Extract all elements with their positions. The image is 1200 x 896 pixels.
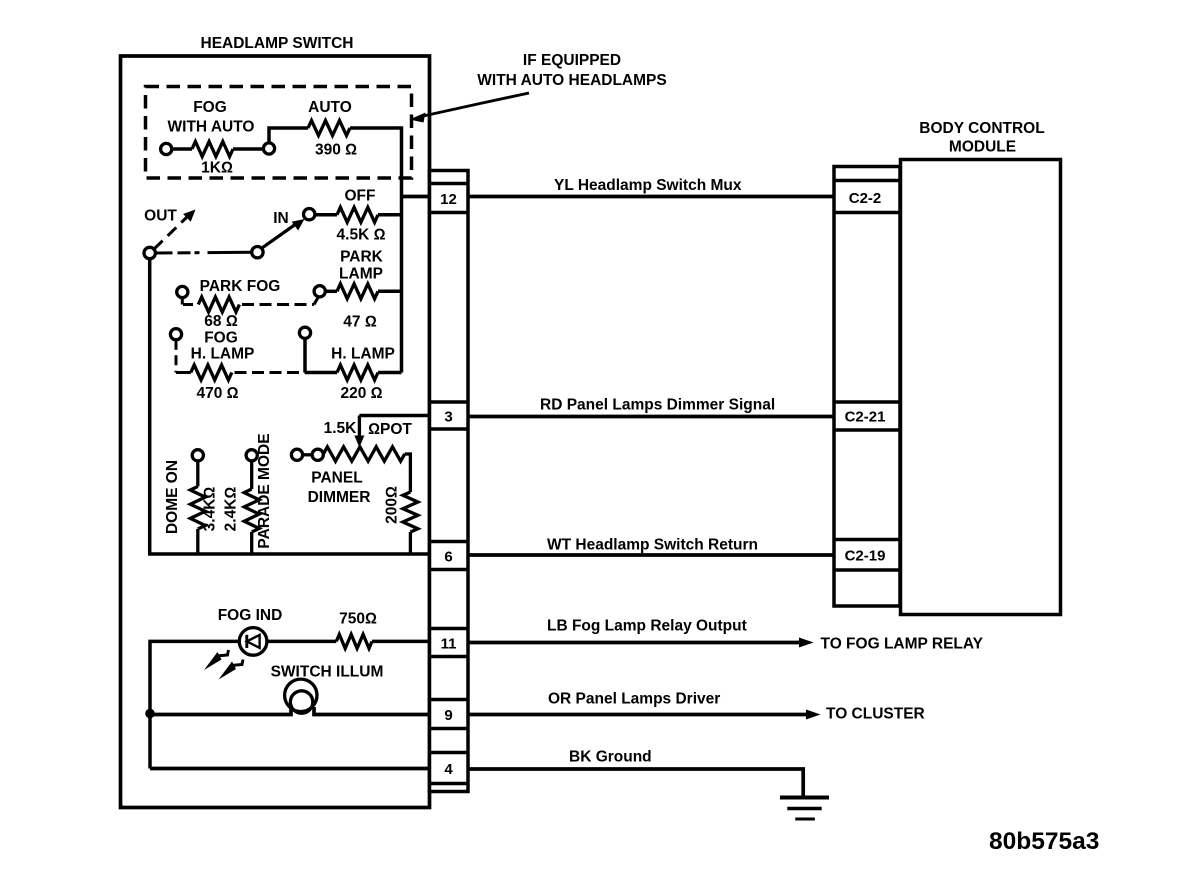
svg-text:OUT: OUT xyxy=(144,208,177,225)
svg-text:6: 6 xyxy=(444,548,452,565)
wire BK ground xyxy=(468,769,803,797)
wire pin 3 into switch xyxy=(359,414,429,418)
wire auto to bus xyxy=(350,126,402,130)
wire xyxy=(250,532,253,554)
wire ground row xyxy=(150,767,430,771)
svg-text:DIMMER: DIMMER xyxy=(308,489,371,506)
wire xyxy=(315,213,337,217)
svg-text:H. LAMP: H. LAMP xyxy=(331,346,395,363)
wire dashes park fog left xyxy=(181,298,184,305)
svg-text:MODULE: MODULE xyxy=(949,139,1016,156)
resistor 3.4K ohm (dome on) xyxy=(190,487,205,530)
svg-text:WITH AUTO: WITH AUTO xyxy=(168,119,255,136)
svg-text:3.4KΩ: 3.4KΩ xyxy=(202,487,219,532)
dimmer rail wire to pin 6 xyxy=(148,552,429,556)
wire LB fog lamp relay output xyxy=(468,641,801,645)
terminal circle PARK LAMP xyxy=(314,286,325,297)
body control module box xyxy=(901,160,1061,615)
terminal circle FOG WITH AUTO right xyxy=(263,143,274,154)
svg-text:H. LAMP: H. LAMP xyxy=(191,346,255,363)
svg-text:220 Ω: 220 Ω xyxy=(340,385,382,402)
wire dashed 470 to h.lamp junction xyxy=(235,371,306,374)
svg-text:47 Ω: 47 Ω xyxy=(343,314,377,331)
wire OR panel lamps driver xyxy=(468,713,808,717)
wire xyxy=(303,453,313,456)
wire xyxy=(267,640,336,644)
resistor 47 ohm (park lamp) xyxy=(337,284,378,299)
resistor 68 ohm (park fog) xyxy=(198,297,239,312)
svg-text:68 Ω: 68 Ω xyxy=(204,313,238,330)
switch arm IN (solid, with arrowhead) xyxy=(262,223,299,249)
wire xyxy=(172,147,192,151)
svg-text:WT Headlamp Switch Return: WT Headlamp Switch Return xyxy=(547,537,758,554)
svg-text:PANEL: PANEL xyxy=(311,470,362,487)
junction dot xyxy=(145,709,155,719)
svg-text:PARADE MODE: PARADE MODE xyxy=(256,433,273,548)
svg-text:AUTO: AUTO xyxy=(308,99,352,116)
terminal circle H.LAMP xyxy=(299,327,310,338)
switch pivot circle (IN side) xyxy=(252,247,263,258)
svg-text:IF EQUIPPED: IF EQUIPPED xyxy=(523,52,621,69)
lamp switch illumination xyxy=(285,679,317,711)
svg-text:C2-2: C2-2 xyxy=(849,190,882,207)
LED fog indicator xyxy=(239,628,267,656)
svg-text:ΩPOT: ΩPOT xyxy=(368,421,412,438)
wire up from junction to AUTO branch xyxy=(269,128,308,143)
wire xyxy=(305,371,337,375)
wire xyxy=(196,529,199,554)
terminal circle pot A xyxy=(291,449,302,460)
note pointer arrow xyxy=(421,93,529,117)
svg-text:TO FOG LAMP RELAY: TO FOG LAMP RELAY xyxy=(821,636,984,653)
svg-text:C2-19: C2-19 xyxy=(845,547,886,564)
svg-text:1.5K: 1.5K xyxy=(324,420,358,437)
svg-text:1KΩ: 1KΩ xyxy=(201,160,233,177)
terminal circle IN xyxy=(304,209,315,220)
svg-text:HEADLAMP SWITCH: HEADLAMP SWITCH xyxy=(201,35,354,52)
svg-text:BK Ground: BK Ground xyxy=(569,749,652,766)
wire pot to 200 ohm xyxy=(405,454,411,492)
wire xyxy=(314,707,430,715)
svg-text:C2-21: C2-21 xyxy=(845,408,886,425)
wire xyxy=(250,461,253,489)
wire xyxy=(233,147,263,151)
pot wiper arrow xyxy=(358,416,361,439)
svg-text:390 Ω: 390 Ω xyxy=(315,142,357,159)
wire dashed park fog to park lamp xyxy=(242,303,314,306)
svg-text:2.4KΩ: 2.4KΩ xyxy=(223,487,240,532)
svg-text:FOG: FOG xyxy=(193,99,227,116)
svg-text:IN: IN xyxy=(273,210,289,227)
wire xyxy=(150,641,239,768)
switch arm OUT (dashed, with arrowhead) xyxy=(154,216,188,249)
svg-text:80b575a3: 80b575a3 xyxy=(989,828,1099,855)
svg-text:3: 3 xyxy=(444,408,452,425)
wire xyxy=(378,371,402,375)
terminal circle FOG WITH AUTO left xyxy=(161,143,172,154)
svg-text:LAMP: LAMP xyxy=(339,266,383,283)
svg-text:4.5K Ω: 4.5K Ω xyxy=(337,227,386,244)
svg-text:PARK FOG: PARK FOG xyxy=(200,278,281,295)
svg-text:FOG IND: FOG IND xyxy=(218,607,283,624)
resistor 750 ohm xyxy=(336,634,372,648)
BCM connector strip xyxy=(834,167,900,607)
resistor 4.5K ohm (off) xyxy=(337,207,378,222)
wire xyxy=(409,532,412,554)
resistor 220 ohm (h.lamp) xyxy=(337,365,378,380)
terminal circle FOG H.LAMP xyxy=(170,329,181,340)
wire from pivot down to dimmer rail xyxy=(148,259,152,554)
wire YL headlamp switch mux xyxy=(468,195,834,199)
svg-text:LB Fog Lamp Relay Output: LB Fog Lamp Relay Output xyxy=(547,618,747,635)
wire bus to pin 12 xyxy=(402,195,430,199)
svg-text:BODY CONTROL: BODY CONTROL xyxy=(919,120,1044,137)
wire h.lamp drop xyxy=(303,338,307,372)
wire RD panel lamps dimmer signal xyxy=(468,415,834,419)
terminal circle PARK FOG xyxy=(177,286,188,297)
resistor 1K ohm (fog with auto) xyxy=(192,142,233,157)
resistor 200 ohm xyxy=(403,492,418,532)
svg-text:12: 12 xyxy=(440,191,457,208)
wire WT headlamp switch return xyxy=(468,553,834,557)
wire xyxy=(150,707,291,715)
dash-dot link wire between pivots xyxy=(156,251,252,255)
terminal circle pot B xyxy=(312,449,323,460)
svg-text:DOME ON: DOME ON xyxy=(164,460,181,534)
svg-text:11: 11 xyxy=(441,635,457,652)
svg-text:TO CLUSTER: TO CLUSTER xyxy=(826,706,925,723)
svg-text:WITH AUTO HEADLAMPS: WITH AUTO HEADLAMPS xyxy=(477,72,666,89)
svg-text:OFF: OFF xyxy=(345,188,376,205)
resistor 470 ohm (fog h.lamp) xyxy=(191,365,232,380)
wire xyxy=(378,290,402,294)
wire xyxy=(325,290,337,294)
bus wire (right vertical inside switch) xyxy=(400,126,404,372)
wire xyxy=(372,640,430,644)
terminal circle PARADE MODE xyxy=(246,450,257,461)
svg-text:RD Panel Lamps Dimmer Signal: RD Panel Lamps Dimmer Signal xyxy=(540,397,775,414)
terminal circle DOME ON xyxy=(192,450,203,461)
wire dashed fog h.lamp drop xyxy=(175,340,178,373)
wire xyxy=(196,461,199,487)
svg-text:PARK: PARK xyxy=(340,249,384,266)
resistor 390 ohm (auto) xyxy=(308,121,350,136)
svg-text:FOG: FOG xyxy=(204,330,238,347)
resistor 2.4K ohm (parade mode) xyxy=(244,489,259,532)
ground symbol xyxy=(780,796,829,800)
svg-text:200Ω: 200Ω xyxy=(384,486,401,524)
headlamp switch outline box xyxy=(121,56,430,808)
potentiometer 1.5K panel dimmer xyxy=(323,447,404,461)
switch pivot circle (common) xyxy=(144,247,155,258)
wire xyxy=(378,213,402,217)
dashed auto-headlamps option box xyxy=(146,87,412,179)
LED light arrows xyxy=(217,650,229,656)
svg-text:750Ω: 750Ω xyxy=(339,611,377,628)
svg-text:470 Ω: 470 Ω xyxy=(196,385,238,402)
svg-text:YL Headlamp Switch Mux: YL Headlamp Switch Mux xyxy=(554,177,742,194)
svg-text:OR Panel Lamps Driver: OR Panel Lamps Driver xyxy=(548,691,720,708)
svg-text:SWITCH ILLUM: SWITCH ILLUM xyxy=(271,664,384,681)
svg-text:4: 4 xyxy=(444,761,453,778)
headlamp switch connector strip xyxy=(430,171,469,792)
svg-text:9: 9 xyxy=(444,707,452,724)
